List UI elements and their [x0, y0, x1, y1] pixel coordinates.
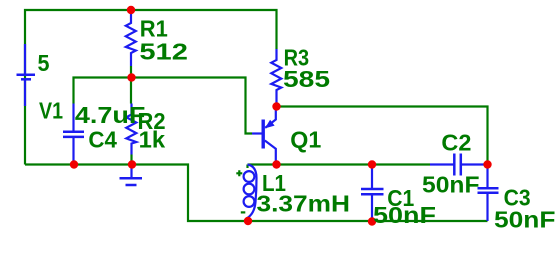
svg-text:3.37mH: 3.37mH	[257, 191, 351, 217]
svg-text:1k: 1k	[139, 127, 166, 153]
svg-text:50nF: 50nF	[422, 172, 480, 198]
svg-text:C2: C2	[441, 130, 471, 156]
svg-text:Q1: Q1	[290, 127, 321, 153]
svg-text:50nF: 50nF	[494, 207, 556, 233]
svg-text:4.7uF: 4.7uF	[75, 102, 145, 128]
svg-text:585: 585	[283, 66, 330, 92]
svg-text:5: 5	[38, 50, 50, 76]
svg-text:V1: V1	[39, 98, 63, 124]
svg-text:50nF: 50nF	[373, 202, 436, 228]
svg-text:R1: R1	[140, 15, 168, 41]
svg-text:512: 512	[139, 39, 188, 65]
svg-text:C4: C4	[88, 127, 117, 153]
